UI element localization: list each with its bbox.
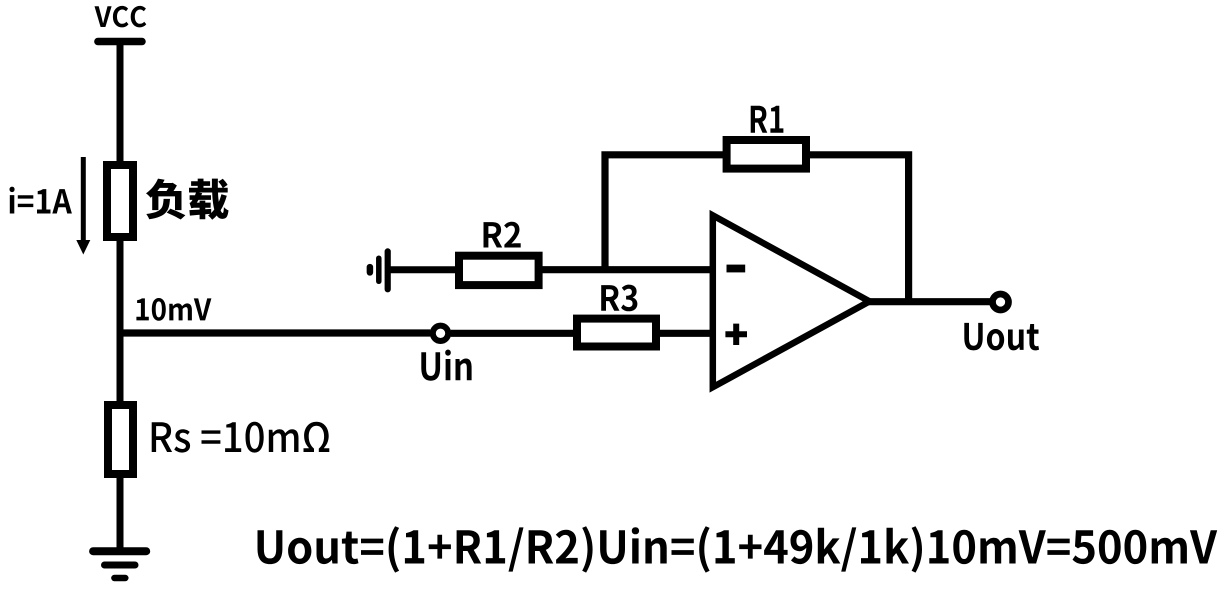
op-amp inverting pin marker - xyxy=(727,265,746,273)
resistor R2 xyxy=(459,256,539,285)
wire inverting node up to R1 xyxy=(605,155,727,273)
resistor Rs xyxy=(108,405,133,474)
VCC power symbol xyxy=(98,38,142,46)
value label Rs =10mΩ xyxy=(152,422,330,453)
op-amp U1 xyxy=(713,215,870,387)
label R2 xyxy=(484,222,521,248)
wire Uin to R3 xyxy=(451,330,577,337)
wire R2 to op-amp inverting input xyxy=(539,266,714,273)
resistor R3 xyxy=(577,319,656,347)
wire R1 to output node xyxy=(806,155,909,302)
terminal Uout xyxy=(993,294,1009,310)
label Uin xyxy=(421,350,471,381)
net label VCC xyxy=(95,6,147,28)
terminal Uin xyxy=(433,326,448,341)
wire ground to R2 xyxy=(389,266,459,273)
formula Uout=(1+R1/R2)Uin=(1+49k/1k)10mV=500mV xyxy=(258,526,1218,572)
wire load to node 10mV to Rs xyxy=(117,237,124,405)
wire VCC to load xyxy=(117,42,124,169)
load label 负载 xyxy=(146,179,229,220)
node label 10mV xyxy=(136,298,211,321)
wire op-amp output to Uout xyxy=(865,298,990,305)
label R1 xyxy=(751,106,784,133)
wire Rs to ground xyxy=(117,474,124,551)
op-amp non-inverting pin marker + xyxy=(725,324,747,345)
resistor load (负载) xyxy=(107,165,133,237)
current label i=1A xyxy=(10,187,72,214)
ground (bottom) xyxy=(93,551,146,578)
ground (left of R2) xyxy=(370,251,388,289)
wire node 10mV to Uin terminal xyxy=(117,329,431,336)
label Uout xyxy=(964,323,1039,351)
wire R3 to op-amp non-inverting input xyxy=(656,330,714,337)
resistor R1 xyxy=(727,140,806,169)
label R3 xyxy=(601,285,637,312)
current arrow i=1A xyxy=(76,157,90,255)
